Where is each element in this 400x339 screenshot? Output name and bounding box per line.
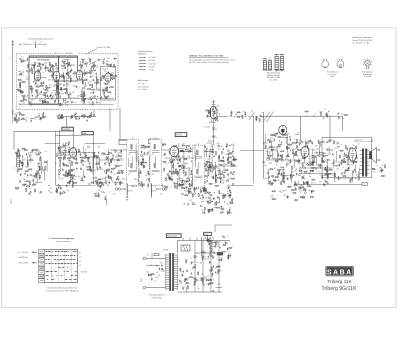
svg-text:330: 330 <box>291 171 294 173</box>
svg-text:68k: 68k <box>31 100 34 102</box>
svg-text:8,2: 8,2 <box>24 181 26 183</box>
svg-text:L: L <box>379 146 380 148</box>
svg-text:12: 12 <box>325 148 327 150</box>
svg-text:20k: 20k <box>268 148 271 150</box>
svg-text:12: 12 <box>299 142 301 144</box>
svg-text:100: 100 <box>93 96 96 98</box>
svg-text:ZF-Teil: ZF-Teil <box>176 135 182 137</box>
svg-text:0,1: 0,1 <box>210 237 212 239</box>
svg-text:10k: 10k <box>379 171 382 173</box>
svg-text:12: 12 <box>227 249 229 251</box>
svg-text:3,3k: 3,3k <box>217 168 220 170</box>
svg-text:5n: 5n <box>197 262 199 264</box>
svg-text:20k: 20k <box>211 158 214 160</box>
svg-text:8,2: 8,2 <box>68 158 70 160</box>
svg-text:50: 50 <box>265 151 267 153</box>
svg-text:12: 12 <box>205 149 207 151</box>
svg-text:2,2: 2,2 <box>108 192 110 194</box>
svg-text:220: 220 <box>118 153 121 155</box>
svg-text:220: 220 <box>372 169 375 171</box>
svg-text:≙ 38 mA: ≙ 38 mA <box>148 65 156 68</box>
svg-text:S = Drucktastenaggregat: S = Drucktastenaggregat <box>49 237 75 240</box>
svg-text:25p: 25p <box>53 86 56 88</box>
svg-text:e1: e1 <box>79 261 81 263</box>
svg-text:8,2: 8,2 <box>189 168 191 170</box>
svg-text:70p: 70p <box>309 176 312 178</box>
svg-text:8,2: 8,2 <box>212 279 214 281</box>
svg-text:150: 150 <box>141 156 144 158</box>
svg-text:50: 50 <box>113 159 115 161</box>
svg-text:10k: 10k <box>102 92 105 94</box>
svg-text:3,3k: 3,3k <box>48 79 51 81</box>
svg-text:70p: 70p <box>373 171 376 173</box>
svg-text:560: 560 <box>43 68 46 70</box>
svg-text:50: 50 <box>297 132 299 134</box>
svg-text:50: 50 <box>208 275 210 277</box>
svg-text:100: 100 <box>60 188 63 190</box>
svg-text:50: 50 <box>315 114 317 116</box>
svg-text:5n: 5n <box>210 176 212 178</box>
svg-text:560: 560 <box>16 112 19 114</box>
svg-text:100: 100 <box>49 84 52 86</box>
svg-text:100: 100 <box>212 258 215 260</box>
svg-text:150: 150 <box>283 195 286 197</box>
svg-text:5n: 5n <box>138 183 140 185</box>
svg-text:25p: 25p <box>218 114 221 116</box>
svg-text:330: 330 <box>38 119 41 121</box>
svg-text:5n: 5n <box>273 158 275 160</box>
svg-text:10k: 10k <box>204 193 207 195</box>
svg-text:68k: 68k <box>106 61 109 63</box>
svg-text:5n: 5n <box>216 137 218 139</box>
svg-text:220: 220 <box>231 160 234 162</box>
svg-text:330: 330 <box>313 150 316 152</box>
svg-text:Trennst. 10,7 MHz: Trennst. 10,7 MHz <box>97 46 111 49</box>
svg-text:Abkürzungen:: Abkürzungen: <box>138 79 149 82</box>
svg-text:12: 12 <box>293 149 295 151</box>
svg-text:a2: a2 <box>79 257 81 259</box>
svg-text:20k: 20k <box>271 141 274 143</box>
svg-text:4,7k: 4,7k <box>319 181 322 183</box>
svg-text:U ≈50 Hz: U ≈50 Hz <box>19 252 28 254</box>
svg-text:220: 220 <box>184 184 187 186</box>
svg-text:10k: 10k <box>288 161 291 163</box>
svg-text:2,2: 2,2 <box>319 175 321 177</box>
svg-text:100: 100 <box>85 79 88 81</box>
svg-text:25p: 25p <box>208 159 211 161</box>
svg-text:560: 560 <box>107 58 110 60</box>
svg-text:50: 50 <box>181 275 183 277</box>
svg-text:20k: 20k <box>229 202 232 204</box>
svg-text:20k: 20k <box>64 102 67 104</box>
svg-text:Änderungen vorbehalten!: Änderungen vorbehalten! <box>353 36 374 39</box>
svg-text:Triberg 11K: Triberg 11K <box>327 279 352 285</box>
svg-text:70p: 70p <box>25 167 28 169</box>
svg-text:70p: 70p <box>282 190 285 192</box>
svg-text:100: 100 <box>48 190 51 192</box>
svg-text:NF 0,1: NF 0,1 <box>122 179 127 181</box>
svg-text:100: 100 <box>64 151 67 153</box>
svg-text:12: 12 <box>195 258 197 260</box>
svg-text:68k: 68k <box>97 83 100 85</box>
svg-text:—▶─ Wellensch. Taste UKW gedr.: —▶─ Wellensch. Taste UKW gedr. <box>18 43 48 46</box>
svg-text:8,2: 8,2 <box>113 174 115 176</box>
svg-text:330: 330 <box>38 114 41 116</box>
svg-text:10k: 10k <box>118 171 121 173</box>
svg-text:S1: S1 <box>147 255 149 257</box>
svg-text:25p: 25p <box>59 84 62 86</box>
svg-text:≙ 0,25 mA: ≙ 0,25 mA <box>148 62 157 65</box>
svg-text:Netzteil 220V: Netzteil 220V <box>167 235 178 238</box>
svg-text:+: + <box>197 278 198 280</box>
svg-text:50 Hz 42 VA: 50 Hz 42 VA <box>152 297 162 300</box>
svg-text:560: 560 <box>265 178 268 180</box>
svg-text:1n: 1n <box>90 68 92 70</box>
svg-text:ECH 81: ECH 81 <box>209 122 217 124</box>
svg-text:330: 330 <box>332 163 335 165</box>
svg-text:50: 50 <box>382 165 384 167</box>
svg-text:150: 150 <box>23 159 26 161</box>
svg-text:10k: 10k <box>59 186 62 188</box>
svg-text:47: 47 <box>228 252 230 254</box>
svg-text:Triberg 9G/11K: Triberg 9G/11K <box>322 286 357 292</box>
svg-text:1n: 1n <box>113 87 115 89</box>
svg-text:100: 100 <box>279 191 282 193</box>
svg-text:≙ 0,7 mA: ≙ 0,7 mA <box>148 56 156 59</box>
svg-text:e2: e2 <box>79 265 81 267</box>
svg-text:70p: 70p <box>336 169 339 171</box>
svg-text:2,2: 2,2 <box>296 152 298 154</box>
svg-text:100: 100 <box>204 277 207 279</box>
svg-text:12: 12 <box>48 96 50 98</box>
svg-text:1n: 1n <box>42 72 44 74</box>
svg-text:1n: 1n <box>93 65 95 67</box>
svg-text:Kabel: Kabel <box>330 76 335 78</box>
svg-text:12: 12 <box>300 193 302 195</box>
svg-text:50: 50 <box>28 193 30 195</box>
svg-text:a: a <box>10 58 11 60</box>
svg-text:2,2: 2,2 <box>26 77 28 79</box>
svg-text:12: 12 <box>116 163 118 165</box>
svg-text:Gegen: Gegen <box>345 170 350 172</box>
svg-text:a1: a1 <box>79 253 81 255</box>
svg-text:12: 12 <box>109 163 111 165</box>
svg-text:100: 100 <box>73 102 76 104</box>
svg-text:5n: 5n <box>84 59 86 61</box>
svg-text:SABA: SABA <box>327 269 353 276</box>
svg-text:0,1: 0,1 <box>180 186 182 188</box>
svg-text:8,2: 8,2 <box>66 143 68 145</box>
svg-text:10k: 10k <box>186 278 189 280</box>
svg-text:68k: 68k <box>61 114 64 116</box>
svg-text:330: 330 <box>73 85 76 87</box>
svg-text:560: 560 <box>285 159 288 161</box>
svg-text:12: 12 <box>165 164 167 166</box>
svg-text:0,1: 0,1 <box>180 170 182 172</box>
svg-text:3,3k: 3,3k <box>327 170 330 172</box>
svg-text:10k: 10k <box>81 101 84 103</box>
svg-text:25p: 25p <box>104 71 107 73</box>
svg-text:0,1: 0,1 <box>86 155 88 157</box>
svg-text:UKW(FM): UKW(FM) <box>63 129 71 131</box>
svg-text:560: 560 <box>179 281 182 283</box>
svg-text:TELEFUNKEN: TELEFUNKEN <box>37 60 50 62</box>
svg-text:5n: 5n <box>342 167 344 169</box>
svg-text:10k: 10k <box>323 153 326 155</box>
svg-text:560: 560 <box>222 180 225 182</box>
svg-text:30-0,5: 30-0,5 <box>11 199 13 204</box>
svg-text:Tad Baß: Tad Baß <box>81 272 87 274</box>
svg-text:2,2: 2,2 <box>297 155 299 157</box>
svg-text:0,1: 0,1 <box>21 57 23 59</box>
svg-text:8,2: 8,2 <box>37 150 39 152</box>
svg-text:68k: 68k <box>214 207 217 209</box>
svg-text:0,1: 0,1 <box>304 178 306 180</box>
svg-text:0,1: 0,1 <box>73 115 75 117</box>
svg-text:50: 50 <box>29 188 31 190</box>
svg-text:100: 100 <box>274 149 277 151</box>
svg-text:460 kHz: 460 kHz <box>127 191 133 193</box>
svg-text:20k: 20k <box>73 179 76 181</box>
svg-text:Zeichenerklärung:: Zeichenerklärung: <box>138 50 153 53</box>
svg-text:68k: 68k <box>194 264 197 266</box>
svg-text:0,1/250V: 0,1/250V <box>131 186 137 188</box>
svg-text:220: 220 <box>38 93 41 95</box>
svg-text:1M 0,1: 1M 0,1 <box>134 179 139 181</box>
svg-text:47: 47 <box>74 72 76 74</box>
svg-text:10k: 10k <box>191 202 194 204</box>
svg-text:100: 100 <box>182 144 185 146</box>
svg-text:560: 560 <box>211 268 214 270</box>
svg-text:220: 220 <box>58 101 61 103</box>
svg-text:5n: 5n <box>341 144 343 146</box>
svg-text:220: 220 <box>217 149 220 151</box>
svg-text:8,2: 8,2 <box>26 97 28 99</box>
svg-text:47: 47 <box>20 113 22 115</box>
svg-text:10k: 10k <box>265 143 268 145</box>
svg-text:2,2: 2,2 <box>357 143 359 145</box>
svg-text:150: 150 <box>214 118 217 120</box>
svg-text:1n: 1n <box>376 165 378 167</box>
svg-text:10k: 10k <box>114 167 117 169</box>
svg-text:0,1: 0,1 <box>358 179 360 181</box>
svg-text:0,1: 0,1 <box>45 151 47 153</box>
svg-text:47: 47 <box>271 146 273 148</box>
svg-text:47: 47 <box>30 64 32 66</box>
svg-text:25p: 25p <box>212 238 215 240</box>
svg-text:25p: 25p <box>217 105 220 107</box>
svg-text:2,2: 2,2 <box>67 190 69 192</box>
svg-text:20k: 20k <box>23 179 26 181</box>
svg-text:2,2: 2,2 <box>94 170 96 172</box>
svg-text:4,7k: 4,7k <box>303 168 306 170</box>
svg-text:220: 220 <box>272 135 275 137</box>
svg-text:0,1: 0,1 <box>217 266 219 268</box>
svg-text:5n: 5n <box>171 186 173 188</box>
svg-text:47: 47 <box>141 145 143 147</box>
svg-text:100: 100 <box>78 176 81 178</box>
svg-text:68k: 68k <box>218 164 221 166</box>
svg-text:5n: 5n <box>326 162 328 164</box>
svg-text:560: 560 <box>343 156 346 158</box>
svg-text:68k: 68k <box>104 83 107 85</box>
svg-text:8,2: 8,2 <box>185 175 187 177</box>
svg-text:1n: 1n <box>17 157 19 159</box>
svg-text:12: 12 <box>85 150 87 152</box>
svg-text:12: 12 <box>276 164 278 166</box>
svg-text:560: 560 <box>323 175 326 177</box>
svg-text:1k: 1k <box>215 129 217 131</box>
svg-text:50: 50 <box>228 181 230 183</box>
svg-text:20k: 20k <box>270 137 273 139</box>
svg-text:68k: 68k <box>200 263 203 265</box>
svg-text:330: 330 <box>44 62 47 64</box>
svg-text:68k: 68k <box>354 178 357 180</box>
svg-text:20k: 20k <box>288 145 291 147</box>
svg-text:50: 50 <box>218 144 220 146</box>
svg-text:25p: 25p <box>146 271 149 273</box>
svg-text:12: 12 <box>108 83 110 85</box>
svg-text:10k: 10k <box>184 164 187 166</box>
svg-text:+: + <box>221 270 222 272</box>
svg-text:12: 12 <box>190 258 192 260</box>
svg-text:5n: 5n <box>294 149 296 151</box>
svg-text:8,2: 8,2 <box>116 154 118 156</box>
svg-text:560: 560 <box>26 79 29 81</box>
svg-text:7.1: 7.1 <box>363 184 365 186</box>
svg-text:LA 160 kHz: LA 160 kHz <box>19 256 28 259</box>
svg-text:2,2: 2,2 <box>61 68 63 70</box>
svg-text:Osz 6k8: Osz 6k8 <box>204 127 210 129</box>
svg-text:220: 220 <box>160 263 163 265</box>
svg-text:2,2: 2,2 <box>154 280 156 282</box>
svg-text:8,2: 8,2 <box>277 174 279 176</box>
svg-text:47: 47 <box>39 192 41 194</box>
svg-text:330: 330 <box>273 147 276 149</box>
svg-text:Schalterstellungen gezeichnet:: Schalterstellungen gezeichnet: <box>28 37 54 40</box>
svg-text:(von vorn gesehen): (von vorn gesehen) <box>56 240 71 243</box>
svg-text:150: 150 <box>49 188 52 190</box>
svg-text:4,7k: 4,7k <box>215 202 218 204</box>
svg-text:TB: TB <box>160 194 162 196</box>
svg-text:Filter-Bestückung: Filter-Bestückung <box>267 72 280 75</box>
svg-text:560: 560 <box>91 76 94 78</box>
svg-text:330: 330 <box>142 163 145 165</box>
svg-text:25p: 25p <box>119 182 122 184</box>
svg-text:150: 150 <box>284 190 287 192</box>
svg-text:2,2: 2,2 <box>334 160 336 162</box>
svg-text:2,2: 2,2 <box>68 163 70 165</box>
svg-text:25p: 25p <box>14 114 17 116</box>
svg-text:150: 150 <box>315 146 318 148</box>
svg-text:560: 560 <box>307 142 310 144</box>
svg-text:≙ 3 mA: ≙ 3 mA <box>148 68 155 71</box>
svg-text:22k 100: 22k 100 <box>204 258 210 260</box>
svg-text:3,3k: 3,3k <box>35 117 38 119</box>
svg-text:330: 330 <box>341 114 344 116</box>
svg-text:150: 150 <box>202 199 205 201</box>
svg-text:50: 50 <box>106 91 108 93</box>
svg-text:47: 47 <box>275 198 277 200</box>
svg-text:3,3k: 3,3k <box>218 283 221 285</box>
svg-text:68k: 68k <box>107 185 110 187</box>
svg-text:0,1: 0,1 <box>269 153 271 155</box>
svg-text:47: 47 <box>62 144 64 146</box>
svg-text:70p: 70p <box>22 118 25 120</box>
svg-text:47: 47 <box>287 164 289 166</box>
svg-text:10k: 10k <box>299 191 302 193</box>
svg-text:5n: 5n <box>74 117 76 119</box>
svg-text:70p: 70p <box>145 175 148 177</box>
svg-text:Netztrafo 220/240 V: Netztrafo 220/240 V <box>150 294 166 297</box>
svg-text:100: 100 <box>192 261 195 263</box>
svg-text:4,7k: 4,7k <box>30 180 33 182</box>
svg-text:Dr. 764 432 / S. 2 Bl. 1: Dr. 764 432 / S. 2 Bl. 1 <box>353 43 371 45</box>
svg-text:2,2: 2,2 <box>45 65 47 67</box>
svg-text:5n: 5n <box>261 112 263 114</box>
svg-text:50: 50 <box>71 161 73 163</box>
svg-text:25p: 25p <box>83 161 86 163</box>
svg-text:0,1: 0,1 <box>180 269 182 271</box>
svg-text:+: + <box>197 256 198 258</box>
svg-text:5n: 5n <box>220 193 222 195</box>
svg-text:47k: 47k <box>146 179 149 181</box>
svg-text:220: 220 <box>96 67 99 69</box>
svg-text:25p: 25p <box>103 192 106 194</box>
svg-text:70p: 70p <box>98 161 101 163</box>
svg-text:10k: 10k <box>304 190 307 192</box>
svg-text:Ratio-F.: Ratio-F. <box>102 67 108 70</box>
svg-text:50: 50 <box>270 155 272 157</box>
svg-text:2,2: 2,2 <box>211 173 213 175</box>
svg-text:25p: 25p <box>69 72 72 74</box>
svg-text:20k: 20k <box>90 92 93 94</box>
svg-text:100: 100 <box>186 182 189 184</box>
svg-text:3,3k: 3,3k <box>45 96 48 98</box>
svg-text:68k: 68k <box>186 168 189 170</box>
svg-text:5n: 5n <box>271 197 273 199</box>
svg-text:2,2: 2,2 <box>108 95 110 97</box>
svg-text:25p: 25p <box>111 73 114 75</box>
svg-text:4,7k: 4,7k <box>179 283 182 285</box>
svg-text:330: 330 <box>182 287 185 289</box>
svg-text:8,2: 8,2 <box>92 72 94 74</box>
svg-text:KU 6,1 MHz: KU 6,1 MHz <box>19 262 29 264</box>
svg-text:0,1: 0,1 <box>209 195 211 197</box>
svg-text:Stand: 10.58 GW 4/1158: Stand: 10.58 GW 4/1158 <box>353 39 373 42</box>
svg-text:2,2: 2,2 <box>216 259 218 261</box>
svg-text:FM = 87,5...100 MHz: FM = 87,5...100 MHz <box>54 53 73 55</box>
svg-text:220: 220 <box>323 160 326 162</box>
svg-text:68k: 68k <box>196 280 199 282</box>
svg-text:4,7k: 4,7k <box>334 148 337 150</box>
svg-text:≙ 2,5 mA: ≙ 2,5 mA <box>148 59 156 62</box>
svg-text:2,2: 2,2 <box>150 264 152 266</box>
svg-text:0,1: 0,1 <box>200 278 202 280</box>
svg-text:50: 50 <box>30 161 32 163</box>
svg-text:220V~: 220V~ <box>141 277 143 282</box>
svg-text:1n: 1n <box>324 109 326 111</box>
svg-text:68k: 68k <box>97 60 100 62</box>
svg-text:12: 12 <box>52 97 54 99</box>
svg-text:5n: 5n <box>31 168 33 170</box>
svg-text:3,3k: 3,3k <box>35 97 38 99</box>
svg-text:150: 150 <box>142 154 145 156</box>
svg-text:25p: 25p <box>197 288 200 290</box>
svg-text:10k: 10k <box>268 184 271 186</box>
svg-text:0,1: 0,1 <box>262 117 264 119</box>
svg-text:330: 330 <box>158 275 161 277</box>
